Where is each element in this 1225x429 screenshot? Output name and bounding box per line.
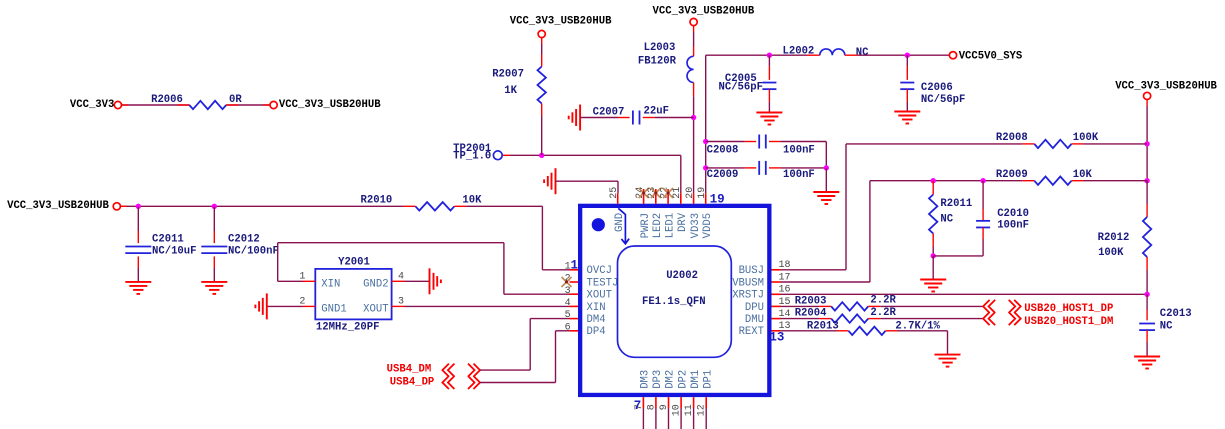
capacitor C2009 100nF (706, 161, 827, 181)
svg-text:VCC_3V3_USB20HUB: VCC_3V3_USB20HUB (653, 5, 755, 17)
U2002 pin 1 OVCJ (565, 261, 612, 277)
net label USB20_HOST1_DM (1024, 316, 1113, 328)
svg-text:GND1: GND1 (321, 303, 346, 315)
resistor R2013 2.7K/1% (807, 320, 941, 335)
junction at R2011 bottom (931, 253, 936, 258)
svg-text:R2010: R2010 (361, 195, 393, 207)
capacitor C2012 NC/100nF (201, 206, 279, 282)
junction at R2008 right (1144, 141, 1149, 146)
ground (C2005) (756, 113, 782, 125)
wire L2003 to U2002 VD33 (693, 83, 695, 194)
svg-text:DPU: DPU (745, 302, 764, 314)
wire right rail upper (1146, 100, 1148, 182)
wire VCC_3V3 to R2006 (122, 104, 190, 106)
svg-text:USB20_HOST1_DP: USB20_HOST1_DP (1024, 303, 1113, 315)
capacitor C2011 NC/10uF (125, 206, 196, 282)
svg-text:11: 11 (684, 404, 695, 416)
svg-text:VD33: VD33 (690, 213, 702, 238)
resistor R2003 2.2R (795, 295, 897, 311)
power flag VCC_3V3_USB20HUB (left rail) (7, 200, 120, 212)
U2002 pin 23 LED2 (647, 187, 664, 239)
U2002 pin 17 VBUSM (732, 272, 790, 289)
svg-text:NC/100nF: NC/100nF (228, 246, 279, 258)
off-page connector USB20_HOST1_DP (983, 300, 1021, 313)
power flag VCC_3V3_USB20HUB (R2006 right) (270, 99, 381, 111)
wire R2007 to TP2001 net (541, 104, 543, 156)
ground (Y2001 GND1) (255, 293, 266, 319)
svg-text:8: 8 (646, 404, 657, 410)
svg-text:100K: 100K (1098, 247, 1124, 259)
svg-text:3: 3 (398, 297, 404, 308)
junction at C2012 (212, 204, 217, 209)
svg-text:DMU: DMU (745, 314, 764, 326)
wire U2002 DMU to R2004 (781, 318, 832, 320)
svg-text:DRV: DRV (677, 212, 689, 232)
U2002 pin 19 VDD5 (697, 187, 714, 239)
U2002 pin 9 DM2 wire (659, 370, 677, 429)
svg-text:VCC_3V3_USB20HUB: VCC_3V3_USB20HUB (510, 16, 612, 28)
svg-text:14: 14 (779, 309, 791, 320)
U2002 pin 18 BUSJ (739, 260, 791, 277)
net label USB4_DP (390, 376, 435, 388)
ground (C2011) (125, 282, 151, 294)
svg-text:OVCJ: OVCJ (587, 265, 612, 277)
capacitor C2005 NC/56pF (718, 55, 776, 112)
svg-text:LED2: LED2 (652, 213, 664, 238)
wire R2004 to USB20_HOST1_DM (868, 318, 983, 320)
svg-text:21: 21 (672, 187, 683, 199)
wire Y2001 XIN to U2002 XOUT (278, 243, 570, 295)
svg-text:TESTJ: TESTJ (587, 277, 619, 289)
svg-text:19: 19 (697, 187, 708, 199)
svg-text:L2003: L2003 (644, 42, 676, 54)
resistor R2004 2.2R (795, 307, 897, 323)
svg-text:XOUT: XOUT (363, 303, 388, 315)
wire U2002 BUSJ to R2008 (781, 144, 1035, 270)
svg-text:BUSJ: BUSJ (739, 265, 764, 277)
U2002 pin 16 XRSTJ (732, 285, 790, 302)
svg-text:13: 13 (769, 331, 784, 345)
svg-text:R2011: R2011 (940, 198, 972, 210)
junction at R2011 top (931, 178, 936, 183)
svg-text:XRSTJ: XRSTJ (732, 290, 764, 302)
ground (U2002 GND pin 25) (544, 168, 555, 194)
power flag VCC_3V3_USB20HUB (R2007) (510, 16, 612, 38)
junction at C2011 (136, 204, 141, 209)
U2002 pin 8 DP3 wire (646, 370, 664, 429)
wire VDD5 vertical (705, 55, 707, 193)
capacitor C2008 100nF (706, 135, 827, 168)
U2002 pin 6 DP4 (565, 322, 606, 338)
resistor R2009 10K (996, 169, 1093, 185)
svg-text:R2013: R2013 (807, 320, 839, 332)
U2002 pin 12 DP1 wire (697, 370, 715, 429)
power flag VCC_3V3 (70, 99, 122, 111)
U2002 pin 5 DM4 (565, 310, 606, 326)
svg-text:R2007: R2007 (492, 68, 524, 80)
svg-text:NC/10uF: NC/10uF (152, 246, 197, 258)
Y2001 pin 3 XOUT (392, 297, 405, 308)
wire C2007 to VD33 net (643, 117, 694, 119)
svg-text:C2012: C2012 (228, 233, 260, 245)
svg-text:DP2: DP2 (677, 370, 689, 389)
power flag VCC_3V3_USB20HUB (right) (1115, 80, 1217, 99)
svg-text:12: 12 (697, 404, 708, 416)
U2002 pin 2 TESTJ (562, 274, 619, 290)
U2002 pin 11 DM1 wire (684, 370, 702, 429)
svg-text:NC: NC (856, 47, 869, 59)
wire R2013 to ground (886, 331, 948, 355)
U2002 pin 10 DP2 wire (672, 370, 690, 429)
svg-text:VBUSM: VBUSM (732, 277, 764, 289)
svg-text:Y2001: Y2001 (338, 257, 370, 269)
wire ground to C2007 (580, 117, 630, 119)
off-page connector USB20_HOST1_DM (983, 312, 1021, 325)
svg-text:18: 18 (779, 260, 791, 271)
op-amp U2002 body (FE1.1s QFN hub controller) (580, 206, 769, 395)
ground (C2013) (1134, 357, 1160, 369)
U2002 corner pin label 7 (634, 399, 642, 413)
svg-text:1K: 1K (504, 85, 517, 97)
test point TP2001 TP_1.0 (453, 143, 502, 163)
svg-text:C2013: C2013 (1160, 308, 1192, 320)
svg-text:7: 7 (634, 399, 642, 413)
svg-text:100nF: 100nF (783, 169, 815, 181)
svg-text:10K: 10K (462, 195, 482, 207)
svg-text:C2006: C2006 (921, 82, 953, 94)
U2002 pin 20 VD33 (685, 187, 702, 239)
U2002 pin 15 DPU (745, 297, 791, 314)
wire 3V3 rail to R2010 (120, 205, 415, 207)
power flag VCC5V0_SYS (949, 51, 1023, 63)
svg-text:VCC_3V3: VCC_3V3 (70, 99, 115, 111)
svg-text:DP1: DP1 (702, 370, 714, 389)
svg-text:20: 20 (685, 187, 696, 199)
svg-text:REXT: REXT (739, 326, 764, 338)
inductor L2002 NC (783, 45, 870, 59)
svg-text:GND: GND (614, 213, 626, 232)
wire ground to U2002 GND (556, 181, 619, 193)
off-page connector USB4_DM (442, 364, 480, 377)
resistor R2007 1K (492, 67, 546, 104)
capacitor C2010 100nF (933, 181, 1029, 256)
wire R2010 to U2002 OVCJ (454, 206, 569, 269)
svg-text:19: 19 (710, 192, 725, 206)
svg-text:100nF: 100nF (783, 145, 815, 157)
wire VDD5 to L2002 (706, 54, 820, 56)
wire TP2001 to U2002 DRV (503, 155, 681, 193)
svg-text:16: 16 (779, 285, 791, 296)
wire L2002 to VCC5V0_SYS (845, 54, 950, 56)
U2002 pin 24 PWRJ (635, 187, 652, 239)
svg-text:5: 5 (565, 310, 571, 321)
svg-text:6: 6 (565, 322, 571, 333)
resistor R2012 100K (1098, 181, 1152, 295)
U2002 corner pin label 19 (710, 192, 725, 206)
wire Y2001 GND2 to ground (405, 280, 430, 282)
wire Y2001 GND1 to ground (267, 305, 303, 307)
power flag VCC_3V3_USB20HUB (L2003) (653, 5, 755, 25)
capacitor C2013 NC (1139, 294, 1191, 356)
wire R2009 to right rail (1072, 180, 1148, 182)
svg-text:NC: NC (1160, 321, 1173, 333)
svg-text:VCC_3V3_USB20HUB: VCC_3V3_USB20HUB (1115, 80, 1217, 92)
svg-text:PWRJ: PWRJ (640, 213, 652, 238)
wire USB4_DP to U2002 DP4 (480, 331, 570, 383)
ground (C2007) (569, 105, 580, 131)
svg-text:NC/56pF: NC/56pF (921, 94, 966, 106)
svg-text:12MHz_20PF: 12MHz_20PF (316, 321, 380, 333)
wire VCC to R2007 (541, 38, 543, 67)
svg-text:R2009: R2009 (996, 169, 1028, 181)
wire VCC to L2003 (693, 26, 695, 57)
wire U2002 REXT to R2013 (781, 330, 849, 332)
svg-text:R2004: R2004 (795, 308, 827, 320)
wire R2008 to right rail (1072, 143, 1148, 145)
svg-text:VDD5: VDD5 (702, 213, 714, 238)
wire R2006 to VCC_3V3_USB20HUB (226, 104, 270, 106)
svg-text:XOUT: XOUT (587, 290, 612, 302)
svg-text:22uF: 22uF (644, 106, 669, 118)
svg-text:15: 15 (779, 297, 791, 308)
svg-text:3: 3 (565, 286, 571, 297)
svg-text:C2011: C2011 (152, 233, 184, 245)
junction at C2010 top (980, 178, 985, 183)
svg-text:DM1: DM1 (690, 370, 702, 389)
svg-text:FB120R: FB120R (638, 56, 677, 68)
svg-text:GND2: GND2 (363, 279, 388, 291)
U2002 pin 7 DM3 wire (634, 370, 652, 429)
Y2001 pin 2 GND1 (299, 297, 315, 308)
ferrite bead L2003 FB120R (638, 42, 694, 83)
svg-text:0R: 0R (229, 94, 242, 106)
U2002 pin 22 LED1 (659, 187, 676, 239)
junction at C2013 top (1144, 292, 1149, 297)
U2002 pin 25 GND (609, 187, 626, 232)
junction at C2008 left (703, 139, 708, 144)
svg-text:4: 4 (565, 298, 571, 309)
svg-text:TP_1.0: TP_1.0 (453, 151, 491, 163)
U2002 corner pin label 1 (571, 259, 579, 273)
wire U2002 VBUSM to R2009 (781, 181, 1035, 282)
svg-text:USB4_DP: USB4_DP (390, 376, 435, 388)
capacitor C2007 22uF (593, 106, 669, 125)
svg-text:1: 1 (571, 259, 579, 273)
svg-text:17: 17 (779, 272, 791, 283)
off-page connector USB4_DP (442, 376, 480, 389)
wire C2008/C2009 to ground (825, 168, 827, 192)
junction at R2009 right (1144, 178, 1149, 183)
svg-text:C2010: C2010 (997, 208, 1029, 220)
svg-text:LED1: LED1 (664, 213, 676, 238)
svg-text:DP3: DP3 (652, 370, 664, 389)
wire R2011/C2010 to ground (932, 256, 934, 280)
capacitor C2006 NC/56pF (900, 55, 965, 111)
svg-text:R2012: R2012 (1098, 232, 1130, 244)
resistor R2006 0R (151, 94, 242, 109)
ground (C2006) (894, 112, 920, 124)
net label USB20_HOST1_DP (1024, 303, 1113, 315)
svg-text:2.2R: 2.2R (870, 307, 896, 319)
svg-text:C2007: C2007 (593, 106, 625, 118)
svg-text:DM4: DM4 (587, 314, 606, 326)
svg-text:R2008: R2008 (996, 132, 1028, 144)
svg-text:C2009: C2009 (707, 169, 739, 181)
svg-text:NC: NC (940, 213, 953, 225)
Y2001 pin 4 GND2 (392, 272, 405, 283)
junction at C2009 left (703, 165, 708, 170)
ground (R2013) (935, 355, 961, 367)
U2002 refdes and value (642, 270, 706, 308)
wire Y2001 XOUT to U2002 XIN (405, 305, 570, 307)
ground (C2008/C2009) (813, 192, 839, 204)
junction at R2007 bottom (539, 153, 544, 158)
svg-text:C2008: C2008 (707, 145, 739, 157)
svg-text:100nF: 100nF (997, 220, 1029, 232)
junction at C2006 (905, 53, 910, 58)
U2002 QFN outline (618, 246, 732, 357)
Y2001 pin 1 XIN (299, 272, 315, 283)
wire U2002 XRSTJ to R2012/C2013 (781, 293, 1148, 295)
svg-text:NC/56pF: NC/56pF (718, 81, 763, 93)
U2002 GND arrow (618, 208, 629, 244)
svg-text:100K: 100K (1073, 132, 1099, 144)
wire U2002 DPU to R2003 (781, 305, 832, 307)
ground (R2011/C2010) (920, 280, 946, 292)
svg-text:R2006: R2006 (151, 94, 183, 106)
svg-text:VCC5V0_SYS: VCC5V0_SYS (959, 51, 1023, 63)
svg-text:VCC_3V3_USB20HUB: VCC_3V3_USB20HUB (7, 200, 109, 212)
wire R2003 to USB20_HOST1_DP (868, 305, 983, 307)
svg-text:USB4_DM: USB4_DM (387, 363, 432, 375)
U2002 pin 14 DMU (745, 309, 791, 326)
resistor R2011 NC (929, 181, 972, 256)
junction at C2009 right (824, 165, 829, 170)
svg-text:DM2: DM2 (665, 370, 677, 389)
svg-text:9: 9 (659, 404, 670, 410)
svg-text:4: 4 (398, 272, 404, 283)
svg-text:L2002: L2002 (783, 45, 815, 57)
ground (C2012) (201, 282, 227, 294)
svg-text:USB20_HOST1_DM: USB20_HOST1_DM (1024, 316, 1113, 328)
U2002 pin 4 XIN (565, 298, 606, 314)
junction at C2005 (767, 53, 772, 58)
svg-text:10: 10 (672, 404, 683, 416)
U2002 pin 21 DRV (672, 187, 689, 232)
U2002 corner pin label 13 (769, 331, 784, 345)
svg-text:DM3: DM3 (640, 370, 652, 389)
crystal Y2001 12MHz_20PF (315, 257, 391, 334)
svg-text:XIN: XIN (587, 302, 606, 314)
ground (Y2001 GND2) (430, 268, 441, 294)
net label USB4_DM (387, 363, 432, 375)
svg-text:R2003: R2003 (795, 295, 827, 307)
wire USB4_DM to U2002 DM4 (480, 319, 570, 371)
svg-text:DP4: DP4 (587, 326, 606, 338)
svg-text:XIN: XIN (321, 279, 340, 291)
svg-text:25: 25 (609, 187, 620, 199)
U2002 pin 3 XOUT (565, 286, 612, 302)
svg-text:2.2R: 2.2R (870, 295, 896, 307)
U2002 pin-1 dot (592, 218, 605, 231)
svg-text:FE1.1s_QFN: FE1.1s_QFN (642, 296, 706, 308)
U2002 pin 13 REXT (739, 321, 791, 338)
svg-text:U2002: U2002 (666, 270, 698, 282)
resistor R2008 100K (996, 132, 1099, 148)
svg-text:VCC_3V3_USB20HUB: VCC_3V3_USB20HUB (279, 99, 381, 111)
resistor R2010 10K (361, 195, 483, 211)
svg-text:10K: 10K (1073, 169, 1093, 181)
junction at C2007 (691, 115, 696, 120)
